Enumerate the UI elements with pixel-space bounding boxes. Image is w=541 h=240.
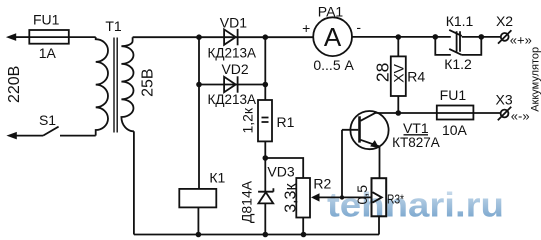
wire R4 top [397, 37, 399, 56]
svg-text:-: - [356, 19, 361, 35]
svg-text:FU1: FU1 [440, 87, 467, 103]
resistor R4 28 [391, 56, 406, 96]
svg-text:«-»: «-» [511, 108, 530, 123]
svg-text:«+»: «+» [510, 32, 532, 47]
svg-text:XV: XV [390, 63, 406, 82]
svg-text:0,5: 0,5 [354, 185, 370, 205]
svg-text:К1: К1 [209, 169, 225, 185]
wire left vertical secondary bottom to bottom rail [133, 131, 135, 234]
zener diode VD3 Д814А [258, 158, 273, 235]
svg-text:Аккумулятор: Аккумулятор [530, 47, 541, 112]
node wiper junction [340, 195, 344, 199]
node top rail K1.2 branch [433, 34, 439, 40]
svg-text:3,3к: 3,3к [282, 183, 299, 213]
transformer T1 core [114, 38, 117, 133]
wire S1 to transformer primary bottom [60, 135, 96, 137]
terminal X2 [498, 30, 511, 43]
svg-text:X3: X3 [496, 91, 513, 107]
node top rail R4 [396, 34, 402, 40]
terminal X3 [498, 107, 511, 120]
wire node to R2 top [265, 158, 303, 178]
wire R4 bottom to collector node [397, 96, 399, 113]
transistor VT1 КТ827А [342, 111, 389, 149]
contact K1.2 blade [449, 49, 462, 55]
wiper arrow into R2 [311, 193, 342, 201]
wire VD2 row [199, 84, 265, 86]
wire base column to wiper line [341, 130, 343, 198]
transformer T1 primary winding [96, 37, 108, 136]
wire R2 bottom to rail [302, 218, 304, 235]
svg-text:1,2к: 1,2к [240, 107, 256, 133]
svg-text:К1.2: К1.2 [444, 56, 472, 72]
svg-text:R3*: R3* [387, 191, 404, 206]
wire column x=199 top rail to relay coil [198, 37, 200, 189]
wire emitter to R3 [379, 147, 381, 179]
svg-text:FU1: FU1 [33, 11, 60, 27]
svg-text:+: + [302, 20, 310, 36]
wire R1 bottom to node [264, 141, 266, 158]
wire fuse to transformer primary [69, 36, 96, 38]
diode VD1 КД213А [224, 29, 238, 45]
node bottom rail R2 [301, 232, 307, 238]
wire bottom rail [134, 234, 379, 236]
svg-text:К1.1: К1.1 [446, 13, 474, 29]
ammeter PA1 [313, 17, 352, 56]
svg-text:VT1: VT1 [403, 120, 429, 136]
switch S1 [43, 127, 59, 136]
node VD2 row right [263, 82, 269, 88]
svg-text:КД213А: КД213А [208, 45, 257, 60]
node R1 bottom [263, 155, 269, 161]
svg-text:Т1: Т1 [105, 18, 122, 34]
wire top rail secondary to ammeter [133, 36, 314, 38]
node top rail at x=265.3 [263, 34, 269, 40]
svg-text:10А: 10А [442, 122, 468, 138]
resistor R2 3.3k [296, 178, 310, 218]
svg-text:R1: R1 [277, 114, 295, 130]
node bottom rail K1 [196, 232, 202, 238]
wire column x=265.3 top rail to R1 [264, 37, 266, 100]
node collector R4 [396, 110, 402, 116]
potentiometer R3* 0.5 [372, 178, 387, 216]
svg-text:R4: R4 [407, 69, 425, 85]
svg-text:КТ827А: КТ827А [392, 135, 440, 150]
svg-text:PA1: PA1 [318, 4, 344, 20]
resistor R1 1.2k [258, 100, 272, 141]
svg-text:А: А [324, 22, 342, 52]
contact K1.2 branch [435, 37, 481, 55]
svg-text:R2: R2 [313, 176, 331, 192]
svg-text:X2: X2 [496, 13, 513, 29]
contact group double bars [457, 31, 460, 52]
fuse FU1 10A [437, 106, 501, 120]
svg-text:КД213А: КД213А [208, 92, 257, 107]
svg-text:Д814А: Д814А [238, 180, 254, 223]
svg-text:0...5 А: 0...5 А [313, 57, 354, 73]
svg-text:VD1: VD1 [220, 15, 247, 31]
wire top rail ammeter to X2 [352, 36, 501, 38]
svg-text:25В: 25В [140, 68, 157, 96]
svg-text:1A: 1A [39, 45, 57, 61]
svg-text:220В: 220В [6, 66, 23, 103]
diode VD2 КД213А [224, 76, 238, 92]
node bottom rail VD3 [263, 232, 269, 238]
relay coil K1 [179, 189, 216, 235]
wire 220V bottom lead with arrow to S1 [6, 132, 43, 140]
transformer T1 secondary winding [121, 37, 133, 131]
wire collector to fuse line [376, 112, 437, 114]
wire 220V top lead with arrow to fuse [6, 33, 29, 41]
svg-text:VD2: VD2 [221, 61, 248, 77]
node top rail K1.2 rejoin [479, 34, 485, 40]
wire R3 bottom to rail [378, 216, 380, 234]
node VD2 row left [196, 82, 202, 88]
node top rail at x=199 [196, 34, 202, 40]
wire wiper line to R3 [342, 196, 372, 198]
fuse FU1 1A [29, 30, 69, 44]
svg-text:VD3: VD3 [267, 164, 294, 180]
svg-text:S1: S1 [39, 112, 56, 128]
contact K1.1 blade [449, 30, 462, 36]
